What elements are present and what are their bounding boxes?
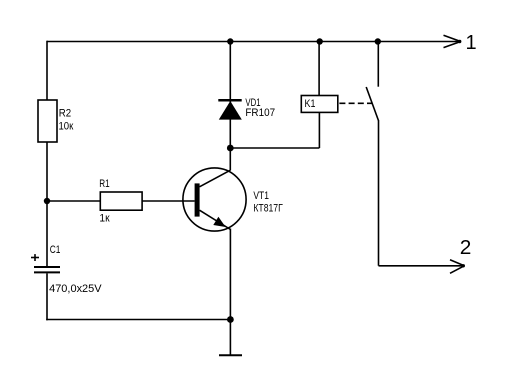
svg-text:R1: R1 [99, 178, 109, 190]
wire top rail [47, 41, 460, 43]
node relay junction top [317, 38, 323, 44]
wire relay linkage dashed [339, 102, 372, 104]
wire bottom rail [46, 319, 230, 321]
wire switch lower vertical [378, 120, 380, 265]
wire collector to relay [230, 147, 319, 149]
ground [219, 354, 242, 356]
wire emitter vertical [229, 229, 231, 320]
node bottom junction [227, 316, 234, 323]
wire left vertical upper [46, 41, 48, 101]
wire output 2 horizontal [379, 265, 464, 267]
svg-text:K1: K1 [305, 98, 316, 110]
resistor R1 [100, 192, 142, 210]
node diode junction top [227, 38, 233, 44]
svg-text:1: 1 [466, 32, 477, 54]
wire ground stem [229, 320, 231, 356]
diode VD1 [218, 100, 242, 119]
svg-text:470,0x25V: 470,0x25V [49, 283, 102, 295]
svg-text:VT1: VT1 [253, 190, 269, 202]
wire diode vertical [229, 42, 231, 149]
wire left vertical lower [46, 142, 48, 266]
terminal arrow 1 [444, 35, 462, 47]
capacitor C1 plus sign [31, 254, 39, 261]
wire relay top [318, 42, 320, 96]
wire switch top stub [377, 42, 379, 87]
svg-text:C1: C1 [50, 244, 61, 256]
node switch junction top [375, 38, 381, 44]
relay K1 [301, 96, 338, 113]
wire collector stub [229, 148, 231, 170]
svg-text:10к: 10к [59, 120, 74, 132]
svg-text:КТ817Г: КТ817Г [253, 202, 282, 214]
capacitor C1 [34, 267, 60, 272]
transistor VT1 [183, 168, 246, 231]
wire C1 bottom [46, 273, 48, 320]
switch blade [366, 87, 378, 121]
node base junction [44, 198, 50, 204]
svg-text:FR107: FR107 [245, 107, 275, 119]
svg-text:2: 2 [460, 237, 472, 259]
terminal arrow 2 [450, 260, 465, 274]
wire relay bottom [318, 112, 320, 148]
node collector junction [227, 145, 234, 152]
svg-text:R2: R2 [59, 108, 71, 120]
wire base left [47, 200, 100, 202]
svg-text:1к: 1к [99, 213, 109, 225]
resistor R2 [38, 100, 57, 142]
wire base right [142, 200, 195, 202]
